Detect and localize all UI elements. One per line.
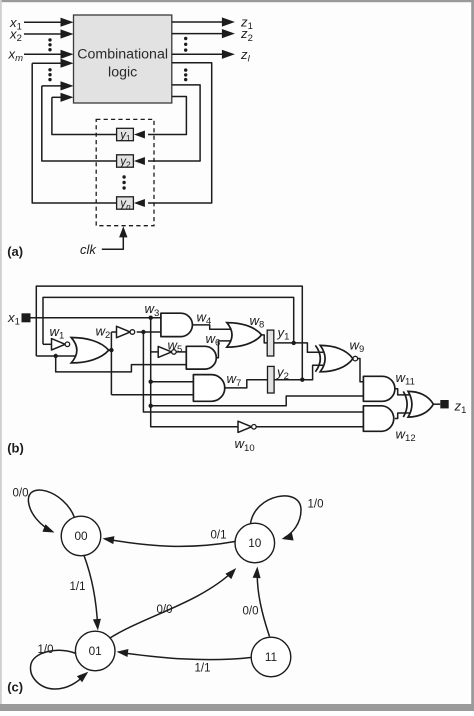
node y2 output [300,378,304,382]
or gate G1 [71,338,109,363]
wire w9 output to w11 [358,359,365,382]
wire y2 output feedback [42,86,117,161]
svg-text:0/0: 0/0 [13,488,29,500]
svg-text:00: 00 [74,529,88,543]
ellipsis dots left inputs [48,38,51,41]
and gate w11 [363,376,395,401]
output terminal z1 [440,400,448,408]
ellipsis dots flip-flops [122,175,125,178]
inverter w10 [238,421,252,432]
input terminal x1 [22,313,31,322]
ellipsis dots right feedback [184,68,187,71]
state 01 [75,631,115,671]
wire block to yn flip-flop [148,63,212,203]
wire w2 output to w4 bottom input [137,331,162,333]
wire y1 output feedback [52,97,117,134]
wire w11 output to xor [395,389,410,395]
ellipsis dots right outputs [184,37,187,40]
state 00 [61,516,101,556]
wire block to y2 flip-flop [148,85,200,161]
wire xor to z1 terminal [433,403,440,405]
inverter w1 [43,343,53,345]
transition 11 to 01 label 1/1 [120,652,251,659]
wire y1 output [274,343,323,352]
state 10 [235,523,275,563]
transition 00 to 01 label 1/1 [84,556,98,628]
svg-text:11: 11 [265,650,277,664]
flip-flop yn [117,197,134,209]
node w6 branch [54,354,58,358]
svg-text:0/0: 0/0 [243,606,259,618]
wire x1 to w4 top input [31,317,162,319]
svg-text:(c): (c) [7,680,23,695]
feedback input from yn [32,62,61,64]
node w3 [149,316,153,320]
wire block to y1 flip-flop [148,97,186,135]
flip-flop y2 [117,155,134,167]
flip-flop bar y1 [267,330,274,356]
wire w3 to w5 input [151,351,159,353]
wire w10 output to w12 bottom input [257,426,365,428]
flip-flop y1 [117,128,134,140]
wire y2 output [274,365,323,380]
wire w7 output to y2 flip-flop [225,380,268,388]
dashed clock boundary box [96,119,154,225]
svg-text:(b): (b) [7,441,24,456]
input x1 [24,21,61,23]
wire w4 output to w8 [192,325,233,329]
feedback input from y1 [52,96,61,98]
svg-text:Combinational: Combinational [77,47,168,63]
or gate w8 [227,323,262,348]
flip-flop bar y2 [268,366,275,393]
wire w8 output to y1 flip-flop [262,335,268,343]
and gate w4 [161,313,193,336]
node G1 output [109,348,113,352]
svg-text:clk: clk [80,242,97,257]
combinational logic block [74,15,172,103]
and gate w7 [193,375,224,402]
transition 10 to 00 label 0/1 [105,539,236,547]
svg-text:1/0: 1/0 [38,644,54,656]
node y1 output [292,341,296,345]
output z1 [172,21,222,23]
feedback wire top line y2 net [36,286,302,380]
wire G1 node up to w2 and down to w7 [110,332,112,395]
transition 11 to 10 label 0/0 [257,570,269,637]
inverter w2 [117,326,131,337]
node w3 to w7 [149,380,153,384]
node w2 output [141,330,145,334]
self loop 10 [251,496,302,538]
page border frame [0,0,474,2]
svg-text:10: 10 [248,536,262,550]
wire yn output feedback [32,63,116,203]
wire w5 to w6 top input [176,351,187,353]
ellipsis dots left feedback [48,68,51,71]
svg-text:1/1: 1/1 [195,663,211,675]
xnor gate w9 [320,345,353,371]
or gate G1 inputs [36,355,80,357]
xor gate output [408,391,433,417]
node w3 to w11 [149,404,153,408]
svg-text:0/1: 0/1 [211,530,227,542]
wire w2 vertical down to w12 input [143,332,364,412]
wire w12 output to xor [395,413,410,419]
svg-text:01: 01 [89,644,102,658]
clk wire and arrow [102,236,124,249]
self loop 01 [31,650,85,689]
svg-text:logic: logic [108,65,137,81]
wire G1 output to node [109,349,112,351]
input xm [24,53,61,55]
state 11 [251,637,291,677]
svg-text:0/0: 0/0 [157,604,173,616]
svg-text:1/1: 1/1 [70,581,86,593]
inverter w5 [158,346,171,357]
transition 01 to 10 label 0/0 [110,571,234,639]
feedback wire second line y1 net [43,297,294,344]
output z2 [172,33,222,35]
wire w3 vertical [151,318,238,427]
and gate w6 [186,346,216,369]
wire w6 output to w8 [216,341,233,358]
feedback input from y2 [42,85,61,87]
input x2 [24,33,61,35]
self loop 00 [28,490,74,532]
and gate w12 [363,406,393,432]
svg-text:1/0: 1/0 [308,499,324,511]
wire w6 branch routing [56,356,187,372]
svg-text:(a): (a) [7,244,23,259]
output zl [172,53,222,55]
